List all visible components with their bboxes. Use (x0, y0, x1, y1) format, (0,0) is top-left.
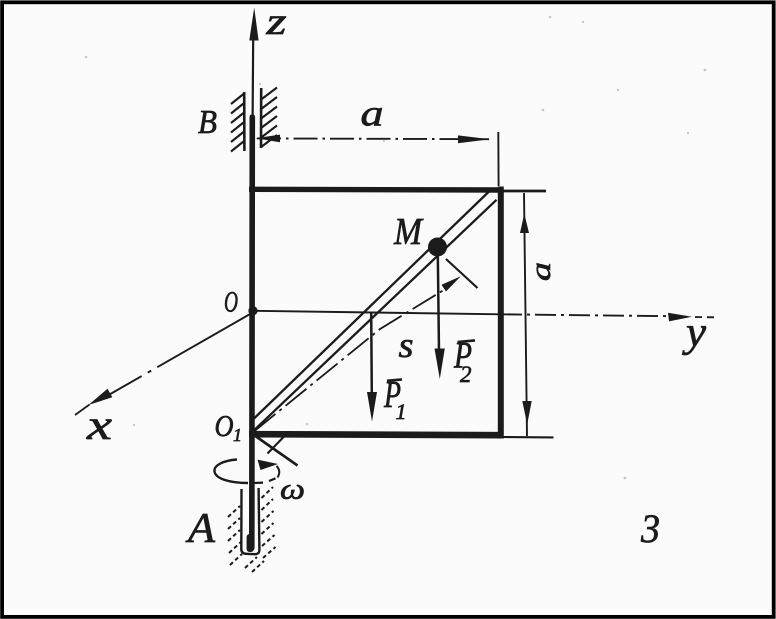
dimension a (top) right arrowhead (458, 135, 490, 143)
svg-text:a: a (361, 94, 384, 135)
dimension a (right) bottom arrowhead (522, 401, 531, 425)
socket A cup (241, 488, 259, 554)
scan speckles (85, 16, 707, 480)
svg-text:y: y (682, 310, 707, 356)
svg-text:x: x (86, 403, 113, 449)
bearing B walls (244, 88, 261, 151)
svg-text:B: B (198, 104, 217, 141)
point M dot (428, 238, 447, 257)
svg-text:z: z (265, 1, 287, 43)
svg-text:O: O (224, 286, 238, 319)
dimension a (top) left arrowhead (256, 135, 281, 143)
svg-text:ω: ω (280, 473, 305, 506)
dimension a (right) top arrowhead (520, 214, 529, 234)
force P2 arrowhead (435, 349, 445, 380)
rod lower end blob (247, 534, 254, 552)
y axis solid segment (252, 311, 501, 315)
svg-text:O: O (215, 408, 234, 443)
tick mark across tube at M (446, 259, 478, 288)
tube channel lower line (255, 200, 497, 430)
omega rotation arc solid (214, 460, 248, 484)
frame right bar (498, 187, 504, 439)
z axis arrowhead (249, 8, 258, 41)
bearing B hatching left (231, 94, 244, 152)
omega arrow hook (277, 466, 280, 478)
omega arrowhead (258, 460, 279, 470)
P1 label overbar (387, 379, 402, 380)
extension line top right corner (497, 132, 499, 186)
svg-text:1: 1 (396, 399, 407, 424)
tube end cross tick (268, 434, 287, 454)
y axis dash-dot segment (501, 314, 672, 316)
y axis arrowhead (668, 313, 692, 322)
socket A hatching below (245, 557, 264, 572)
svg-text:s: s (399, 325, 414, 365)
force P1 arrow line (370, 313, 373, 394)
svg-text:1: 1 (233, 425, 242, 445)
P2 label overbar (458, 340, 476, 342)
rod AB (vertical shaft, z axis) (252, 36, 253, 548)
x axis line (99, 314, 251, 401)
tube channel upper line (254, 192, 489, 419)
tube end stub below O1 (256, 437, 298, 466)
svg-text:A: A (185, 506, 216, 552)
x axis arrowhead (89, 389, 113, 405)
node O junction blob (248, 306, 257, 315)
y axis dashes past arrowhead (695, 316, 714, 318)
frame bottom bar (249, 434, 503, 435)
force P2 arrow line (438, 254, 439, 352)
bearing B hatching right (262, 88, 277, 147)
s arrowhead (442, 276, 461, 291)
svg-text:3: 3 (640, 506, 660, 551)
svg-text:M: M (393, 211, 424, 253)
socket A hatching left (228, 506, 242, 565)
dimension a (top) line (257, 137, 489, 140)
dimension a (right) line (524, 193, 527, 436)
extension line right top (503, 190, 546, 193)
socket A hatching right (262, 487, 276, 558)
svg-text:2: 2 (460, 362, 472, 387)
omega rotation arc dashes (254, 478, 276, 483)
svg-text:a: a (526, 262, 557, 281)
x axis tip tail (75, 405, 90, 416)
force P1 arrowhead (367, 392, 377, 422)
frame top bar (249, 187, 503, 193)
extension line right bottom (503, 436, 554, 438)
s coordinate dash-dot line (255, 288, 448, 431)
